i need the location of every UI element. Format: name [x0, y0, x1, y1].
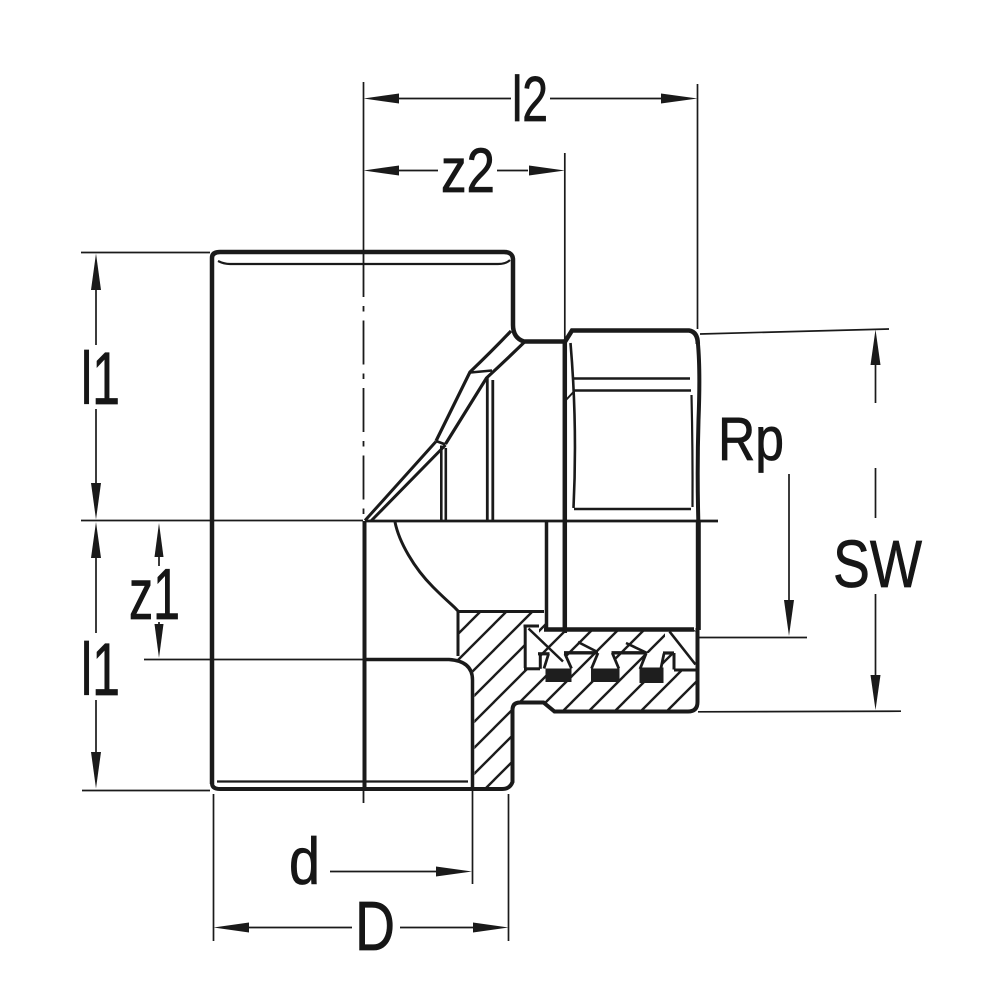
thread insert top edge: [544, 627, 694, 632]
dimension l2 line: [399, 98, 661, 100]
nut chamfer line 3: [574, 508, 691, 510]
notch bottom: [524, 667, 540, 670]
hatched section region: [454, 612, 698, 789]
inner transition curve: [395, 522, 458, 656]
dimension l1 bottom line: [95, 558, 97, 752]
thread crest B: [564, 651, 598, 654]
centerline tail below body: [363, 788, 365, 803]
transition curve outer D2: [446, 342, 525, 444]
body bottom inner chamfer line: [217, 780, 468, 782]
thread groove 1 (white): [544, 654, 572, 669]
hex nut left face: [563, 341, 568, 633]
z1 arrows: [155, 523, 164, 557]
vertical line at thread bore left: [545, 522, 549, 629]
vertical V4: [491, 380, 494, 520]
axis line right: [365, 520, 718, 523]
svg-text:d: d: [289, 824, 320, 898]
insert left edge: [524, 626, 527, 668]
l1 bottom arrows: [91, 522, 101, 558]
SW extension bottom: [698, 710, 901, 713]
hex nut right face upper: [698, 342, 700, 520]
dimension d line: [330, 871, 438, 873]
D arrows: [214, 923, 250, 933]
vertical V3: [486, 378, 489, 521]
vertical V2: [444, 448, 447, 520]
tick T1: [471, 371, 493, 373]
small diagonal on left face: [565, 392, 574, 401]
svg-text:z2: z2: [441, 136, 495, 206]
dimension z2 line: [399, 170, 528, 172]
axis line left: [81, 520, 363, 522]
groove1 left wall: [544, 654, 549, 669]
groove3 left wall: [640, 653, 646, 669]
extension line x697 for l2: [697, 84, 699, 329]
svg-text:l1: l1: [81, 337, 120, 420]
SW arrows: [871, 330, 881, 366]
thread groove 3 (white): [640, 653, 664, 669]
dimension Rp line: [788, 474, 790, 600]
body bottom edge and lower right outline: [212, 628, 698, 789]
extension line d: [472, 791, 474, 884]
thread crest A: [538, 652, 550, 655]
thread crest D: [663, 651, 674, 654]
svg-text:l1: l1: [81, 628, 120, 711]
hex nut top edge with chamfers: [565, 331, 698, 345]
extension line top l1: [81, 252, 210, 254]
svg-text:z1: z1: [129, 555, 180, 635]
extension line z1 bottom: [144, 659, 364, 661]
groove1 right wall: [565, 654, 572, 669]
thread crest C: [612, 651, 647, 654]
thread flank 1: [529, 629, 564, 662]
extension line bottom l1: [82, 790, 210, 792]
d arrow: [436, 867, 472, 877]
thread root bar 1 (black): [546, 669, 572, 683]
thread flank 4 runout: [670, 632, 696, 665]
extension line D left: [213, 794, 215, 941]
svg-text:Rp: Rp: [718, 405, 784, 473]
centerline dash-dot: [363, 253, 365, 521]
thread root bar 2 (black): [591, 669, 620, 683]
section cut edge at centerline: [363, 521, 367, 787]
nut chamfer line 1: [572, 377, 690, 379]
nut chamfer line 2: [574, 389, 691, 391]
hex edge curve left: [571, 343, 575, 508]
Rp reference line: [699, 637, 807, 639]
socket shoulder and bore wall: [366, 660, 473, 789]
l1 top arrows: [91, 254, 101, 291]
l2 arrows: [364, 94, 400, 104]
groove3 right wall: [661, 654, 664, 669]
body outline left and top and right to neck: [212, 252, 564, 784]
hex edge curve right: [692, 395, 693, 507]
thread runout area right (white): [665, 632, 697, 670]
wedge line E2: [371, 445, 446, 521]
z2 arrows: [364, 166, 400, 176]
svg-text:SW: SW: [833, 527, 923, 602]
tick TJ: [436, 441, 446, 445]
vertical V1: [440, 446, 443, 521]
svg-text:D: D: [355, 887, 395, 965]
dimension z1 line: [158, 556, 160, 626]
runout drop: [673, 653, 676, 670]
thread groove 2 (white): [592, 653, 619, 669]
wedge line E1: [365, 442, 436, 521]
dimension D line: [222, 927, 500, 929]
body top inner chamfer line: [218, 260, 510, 264]
notch right wall: [539, 655, 542, 669]
extension line D right: [508, 794, 510, 941]
centerline solid upper: [363, 82, 365, 252]
runout shelf: [674, 669, 697, 672]
web top line: [457, 610, 544, 613]
extension line x565 for z2: [564, 153, 566, 340]
dimension l1 top line: [95, 290, 97, 483]
groove2 left wall: [592, 653, 599, 669]
Rp arrow: [784, 600, 794, 636]
SW extension top: [700, 329, 889, 334]
insert mini top edge left: [524, 625, 540, 628]
hex nut right face lower sectioned: [696, 520, 701, 630]
transition curve outer D1: [436, 331, 511, 441]
svg-text:l2: l2: [512, 63, 548, 135]
thread flank 3: [626, 643, 646, 653]
thread root bar 3 (black): [640, 668, 664, 684]
thread notch left (white): [526, 628, 539, 668]
groove2 right wall: [612, 653, 619, 669]
thread flank 2: [578, 642, 598, 652]
dimension SW line: [875, 364, 877, 676]
